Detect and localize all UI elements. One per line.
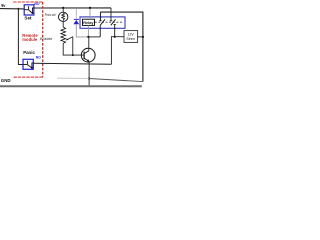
wire collector to coil junction <box>88 37 90 51</box>
potentiometer R2 5K variable <box>61 27 73 55</box>
node junction dot coil top pin on rail <box>89 7 91 9</box>
wire relay coil top pin (gray) <box>89 8 91 19</box>
value label Remote module <box>22 33 38 42</box>
wire siren net to siren box <box>115 36 124 38</box>
svg-text:Relay: Relay <box>83 21 93 25</box>
svg-text:GND: GND <box>1 78 11 83</box>
wire emitter down to ground rail <box>88 61 90 86</box>
value label Photo cell <box>45 13 56 17</box>
svg-text:NO: NO <box>36 56 41 60</box>
svg-text:Siren: Siren <box>126 37 135 41</box>
wire photocell to potentiometer <box>62 22 64 27</box>
relay contact 1 (latch) <box>99 12 105 37</box>
wire 9v rail corner down to contact 2 <box>110 8 112 21</box>
svg-text:Set: Set <box>24 15 32 20</box>
wire riser Panic wire up to siren net <box>111 37 114 65</box>
node junction dot photocell top <box>62 7 64 9</box>
wire Panic output to siren riser <box>33 63 111 64</box>
relay coil box with label <box>83 19 95 25</box>
diode D1 flyback (blue) <box>73 8 79 24</box>
switch S1 Set (blue box) <box>24 5 34 15</box>
relay K1 outer box (blue) <box>80 17 125 28</box>
node GND label <box>1 78 11 83</box>
svg-text:9v: 9v <box>1 3 6 8</box>
photocell LDR R1 <box>59 12 68 21</box>
transistor Q1 NPN <box>81 48 95 62</box>
wire 9v rail from Set switch to relay corner <box>34 7 111 9</box>
wire 9v rail left segment <box>0 8 24 10</box>
switch S2 Panic (blue box) <box>23 59 33 69</box>
node junction dot emitter / ground return <box>88 77 90 79</box>
wire ground net top: contact1 top to right side <box>100 12 142 82</box>
svg-text:Panic: Panic <box>23 50 35 55</box>
wire diode anode to coil bottom junction (gray) <box>76 24 88 37</box>
value label Panic <box>23 50 35 55</box>
node junction dot coil bottom / collector / diode <box>87 36 89 38</box>
relay mechanical link (dashed) <box>95 21 123 23</box>
wire faint stub left of emitter dot <box>57 77 89 79</box>
node 9v label <box>1 3 6 8</box>
wire photocell top lead <box>62 8 64 12</box>
relay contact 2 (siren) <box>110 19 116 36</box>
wire contact1 bottom to coil junction <box>88 36 100 38</box>
wire potentiometer bottom to transistor base <box>63 44 84 55</box>
wire ground net bottom: right side to emitter dot <box>89 79 143 82</box>
svg-text:NO: NO <box>34 2 39 6</box>
value label 5K Variable <box>40 37 52 41</box>
node junction dot contact2 / siren wire <box>114 36 116 38</box>
node junction dot siren / ground vertical <box>142 36 144 38</box>
wire siren box right to ground vertical <box>138 36 143 38</box>
svg-text:Photo cell: Photo cell <box>45 13 56 17</box>
wire drop from 9v rail to Panic switch <box>18 9 23 65</box>
remote module boundary (red dashed) <box>13 2 43 77</box>
pin label NO (Set switch) <box>34 2 39 6</box>
svg-text:module: module <box>22 37 38 42</box>
pin label NO (Panic switch) <box>36 56 41 60</box>
wire relay coil bottom pin (gray) <box>87 25 89 37</box>
node junction dot wiper to base wire <box>72 54 74 56</box>
svg-text:5K Variable: 5K Variable <box>40 37 52 41</box>
value label Set <box>24 15 32 20</box>
wire GND rail (gray) <box>0 85 142 87</box>
siren SP1 12V box <box>124 31 138 43</box>
node junction dot 9v rail / panic branch <box>18 8 20 10</box>
